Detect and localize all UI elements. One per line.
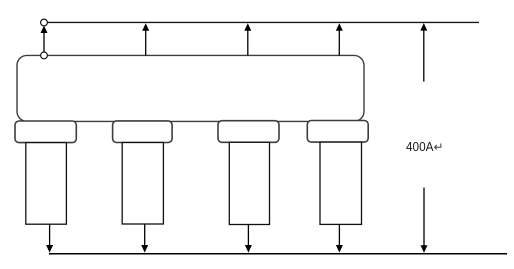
- dimension arrow: upper segment (points up to supply line): [420, 23, 427, 82]
- wire: up arrow 4 (busbar to supply line): [336, 23, 343, 55]
- wire: up arrow 2 (busbar to supply line): [142, 23, 149, 55]
- fuse F2 cap (contact head): [113, 121, 173, 143]
- wire: feeder 4 down arrow: [336, 224, 343, 252]
- fuse F4 body: [320, 142, 362, 224]
- supply line (top incoming bus): [44, 21, 479, 23]
- wire: feeder 3 down arrow: [245, 225, 252, 253]
- node: connection circle on busbar top: [41, 52, 48, 59]
- wire: incoming feeder arrow (busbar to supply line): [41, 26, 48, 56]
- wire: up arrow 3 (busbar to supply line): [244, 23, 251, 55]
- fuse F3 cap (contact head): [218, 121, 279, 143]
- load line (bottom bus): [49, 253, 507, 255]
- fuse F1 cap (contact head): [15, 121, 76, 143]
- busbar (main rounded bus bar): [17, 55, 364, 121]
- fuse F1 body: [26, 143, 67, 225]
- wire: feeder 2 down arrow: [141, 224, 148, 253]
- fuse F4 cap (contact head): [307, 121, 368, 143]
- fuse F2 body: [122, 143, 163, 225]
- fuse F3 body: [229, 142, 269, 224]
- svg-text:400A↵: 400A↵: [406, 139, 444, 154]
- node: connection circle on supply line: [41, 19, 48, 26]
- dimension arrow: lower segment (points down to load line): [421, 188, 428, 253]
- wire: feeder 1 down arrow: [46, 224, 53, 252]
